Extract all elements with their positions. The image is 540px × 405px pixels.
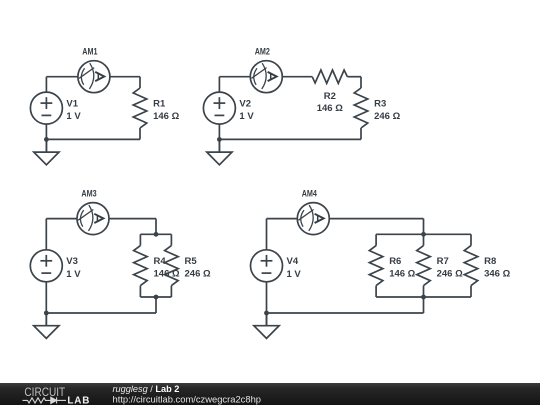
- wire: [140, 233, 171, 235]
- wire: [360, 128, 362, 139]
- svg-text:R2: R2: [324, 91, 336, 102]
- svg-text:146 Ω: 146 Ω: [389, 269, 415, 280]
- resistor R4: [134, 246, 148, 286]
- wire: [46, 218, 77, 220]
- resistor R8: [464, 246, 478, 286]
- junction: [264, 311, 269, 316]
- wire: [139, 77, 141, 88]
- wire: [139, 234, 141, 245]
- wire: [375, 234, 377, 245]
- svg-text:LAB: LAB: [67, 396, 90, 405]
- wire: [219, 138, 361, 140]
- ground: [34, 139, 59, 164]
- wire: [470, 286, 472, 297]
- svg-text:V4: V4: [287, 256, 299, 267]
- wire: [470, 234, 472, 245]
- svg-text:146 Ω: 146 Ω: [153, 111, 179, 122]
- ammeter AM4: [297, 203, 329, 235]
- svg-text:346 Ω: 346 Ω: [484, 269, 510, 280]
- svg-text:R8: R8: [484, 256, 496, 267]
- wire: [139, 286, 141, 297]
- svg-text:R4: R4: [154, 256, 167, 267]
- wire: [139, 128, 141, 139]
- svg-text:R1: R1: [153, 99, 166, 110]
- svg-text:1 V: 1 V: [66, 111, 81, 122]
- wire: [109, 218, 156, 220]
- wire: [155, 297, 157, 313]
- wire: [375, 286, 377, 297]
- junction: [154, 295, 159, 300]
- svg-text:R6: R6: [389, 256, 401, 267]
- junction: [154, 232, 159, 237]
- wire: [45, 282, 47, 325]
- wire: [45, 77, 47, 93]
- wire: [423, 219, 425, 235]
- wire: [170, 286, 172, 297]
- wire: [45, 124, 47, 152]
- wire: [140, 296, 171, 298]
- svg-text:R3: R3: [374, 99, 386, 110]
- wire: [267, 218, 298, 220]
- wire: [218, 77, 220, 93]
- svg-text:246 Ω: 246 Ω: [437, 269, 463, 280]
- wire: [423, 234, 425, 245]
- wire: [170, 234, 172, 245]
- voltage source V4: [251, 250, 283, 282]
- resistor R3: [354, 88, 368, 128]
- voltage source V1: [30, 92, 62, 124]
- resistor R1: [133, 88, 147, 128]
- svg-text:246 Ω: 246 Ω: [374, 111, 400, 122]
- voltage source V2: [203, 92, 235, 124]
- junction: [44, 137, 49, 142]
- svg-text:CIRCUIT: CIRCUIT: [24, 387, 65, 399]
- resistor R7: [417, 246, 431, 286]
- junction: [217, 137, 222, 142]
- svg-text:AM3: AM3: [81, 189, 96, 200]
- svg-text:246 Ω: 246 Ω: [185, 269, 211, 280]
- wire: [266, 282, 268, 325]
- svg-text:1 V: 1 V: [239, 111, 254, 122]
- junction: [421, 232, 426, 237]
- svg-text:http://circuitlab.com/czwegcra: http://circuitlab.com/czwegcra2c8hp: [113, 393, 262, 404]
- svg-text:V2: V2: [239, 98, 251, 109]
- wire: [110, 76, 140, 78]
- ammeter AM1: [78, 61, 110, 93]
- wire: [46, 138, 140, 140]
- wire: [376, 233, 471, 235]
- svg-text:146 Ω: 146 Ω: [317, 103, 343, 114]
- junction: [421, 295, 426, 300]
- logo wire-resistor-diode motif: [23, 397, 67, 403]
- resistor R6: [369, 246, 383, 286]
- svg-text:AM4: AM4: [302, 189, 318, 200]
- ground: [207, 139, 232, 164]
- svg-text:1 V: 1 V: [66, 269, 81, 280]
- svg-text:R5: R5: [185, 256, 198, 267]
- wire: [155, 219, 157, 235]
- svg-text:AM1: AM1: [82, 47, 98, 58]
- wire: [376, 296, 471, 298]
- wire: [267, 312, 424, 314]
- ground: [254, 313, 279, 338]
- resistor R2: [312, 70, 347, 83]
- resistor R5: [165, 246, 179, 286]
- wire: [329, 218, 423, 220]
- wire: [282, 76, 312, 78]
- wire: [266, 219, 268, 250]
- wire: [46, 76, 78, 78]
- wire: [45, 219, 47, 250]
- ammeter AM3: [77, 203, 109, 235]
- ammeter AM2: [250, 61, 282, 93]
- junction: [44, 311, 49, 316]
- svg-text:R7: R7: [437, 256, 449, 267]
- voltage source V3: [30, 250, 62, 282]
- svg-text:V1: V1: [66, 98, 78, 109]
- wire: [347, 76, 361, 78]
- wire: [360, 77, 362, 88]
- ground: [34, 313, 59, 338]
- wire: [219, 76, 250, 78]
- wire: [218, 124, 220, 152]
- svg-text:V3: V3: [66, 256, 78, 267]
- wire: [423, 297, 425, 313]
- wire: [46, 312, 156, 314]
- svg-text:1 V: 1 V: [287, 269, 302, 280]
- wire: [423, 286, 425, 297]
- svg-text:AM2: AM2: [255, 47, 270, 58]
